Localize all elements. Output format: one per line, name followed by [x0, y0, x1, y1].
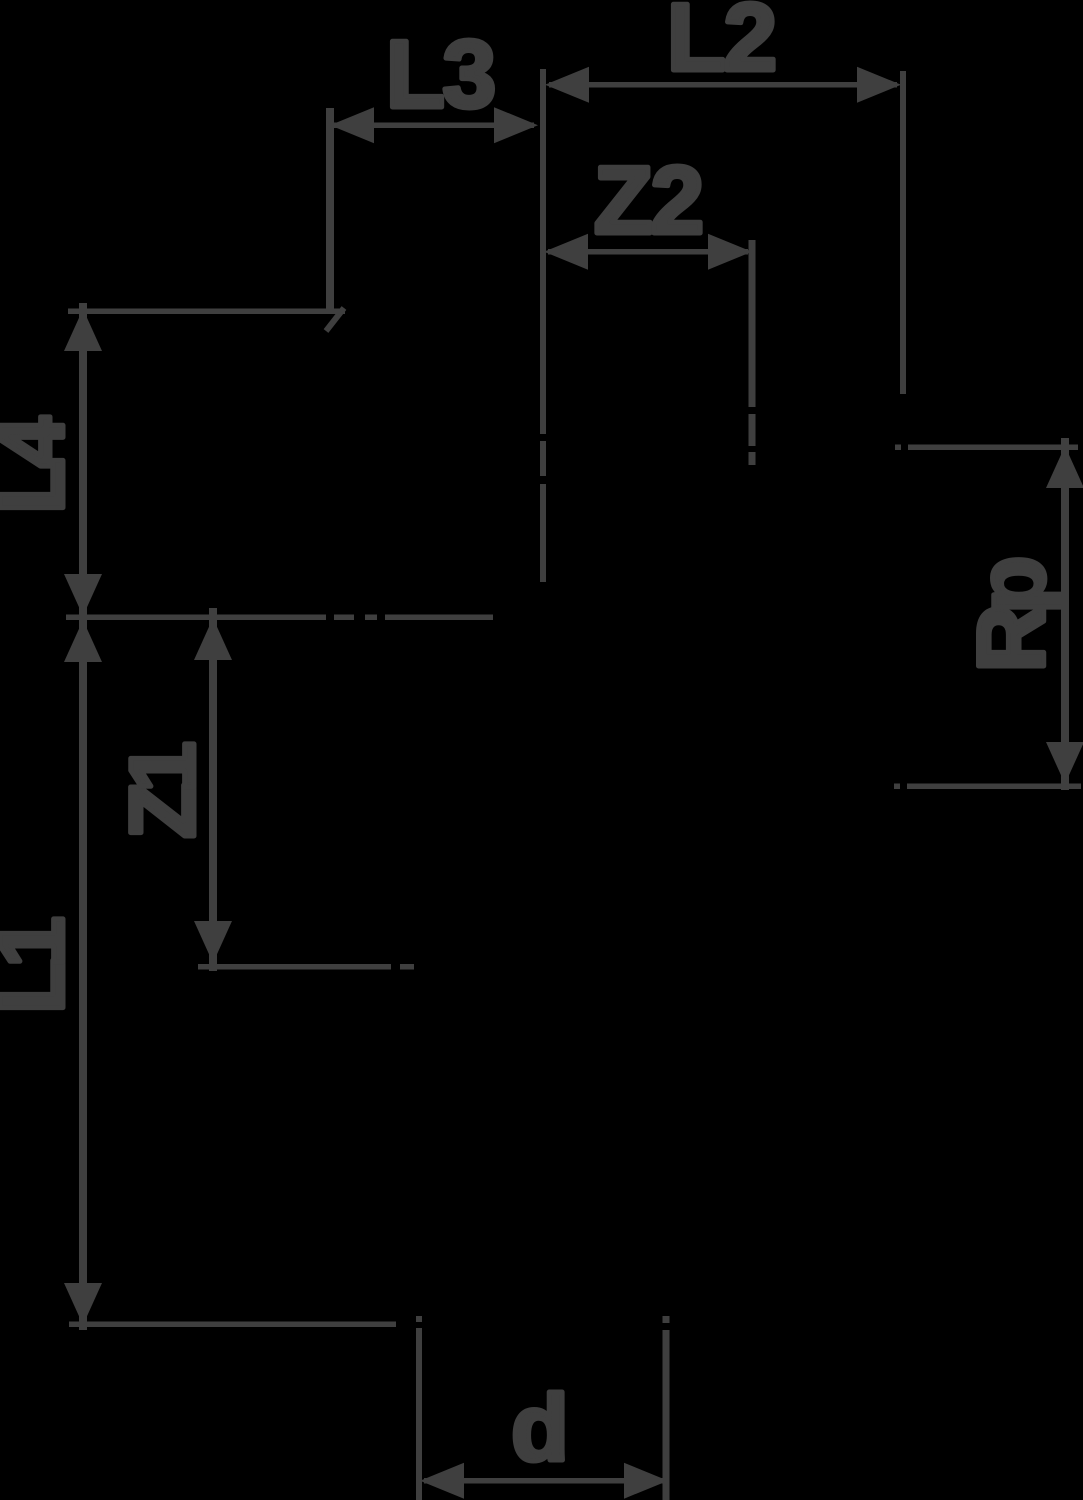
horizontal line y=447 (Rp top)	[895, 445, 901, 451]
svg-text:Z1: Z1	[112, 743, 214, 838]
svg-text:d: d	[511, 1375, 568, 1480]
horizontal centerline y=617	[66, 615, 326, 621]
dimension line d	[424, 1478, 664, 1484]
dimension line L2	[549, 82, 897, 88]
tick at junction (330,311)	[326, 308, 344, 331]
extension line x=330 (L3 left)	[326, 108, 334, 311]
horizontal line y=786 (Rp bottom)	[894, 784, 900, 790]
svg-text:L2: L2	[667, 0, 775, 91]
extension line x=419 (d left)	[416, 1316, 422, 1322]
svg-text:L4: L4	[0, 416, 83, 513]
svg-text:L3: L3	[386, 21, 494, 128]
svg-text:Rp: Rp	[959, 559, 1065, 673]
extension line x=752 (Z2 right centerline)	[749, 240, 756, 407]
svg-text:Z2: Z2	[594, 147, 702, 254]
dimension line L1	[79, 620, 87, 1330]
dimension line Z1	[209, 608, 217, 971]
dimension line L3	[334, 123, 534, 129]
dimension line L4	[79, 303, 87, 616]
extension line x=903 (L2 right)	[900, 71, 906, 394]
dimension line Z2	[548, 249, 748, 255]
svg-text:L1: L1	[0, 918, 83, 1013]
horizontal line y=1324 (L1 bottom)	[69, 1322, 396, 1328]
dimension line Rp	[1061, 438, 1069, 790]
extension line x=542 (L2/Z2 left centerline)	[540, 69, 546, 434]
horizontal centerline y=967 (Z1 bottom)	[198, 964, 391, 970]
extension line x=666 (d right)	[663, 1316, 670, 1323]
horizontal line y=311 (L4 top)	[68, 309, 345, 315]
